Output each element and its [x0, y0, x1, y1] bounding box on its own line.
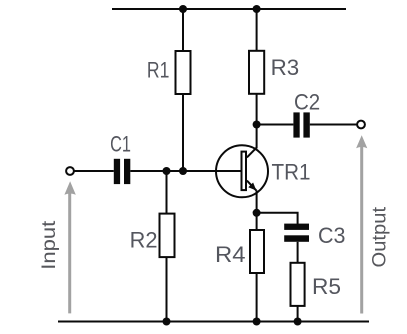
wire C3 to R5 [297, 242, 299, 264]
svg-text:C2: C2 [294, 90, 320, 115]
svg-text:R1: R1 [147, 57, 170, 82]
transistor TR1 body circle [216, 145, 268, 197]
svg-text:TR1: TR1 [272, 159, 311, 184]
resistor R2 [160, 214, 175, 258]
wire R2 top [166, 171, 168, 215]
wire R1 bottom to base node [182, 94, 184, 171]
wire top supply rail [112, 8, 346, 10]
node emitter junction [253, 209, 261, 217]
wire input to C1 [75, 170, 114, 172]
svg-text:C1: C1 [110, 131, 131, 156]
svg-text:R4: R4 [215, 242, 246, 267]
svg-text:R2: R2 [130, 228, 158, 253]
wire R3 bottom to collector [256, 94, 258, 149]
node ground rail R4 junction [253, 318, 261, 326]
node base wire R2 junction [163, 167, 171, 175]
node top rail R3 junction [253, 5, 261, 13]
wire C1 to transistor base [130, 170, 240, 172]
wire emitter node to C3 [257, 213, 298, 224]
wire R3 top to rail [256, 9, 258, 52]
resistor R4 [250, 230, 264, 273]
wire R4 bottom to ground rail [256, 273, 258, 322]
transistor TR1 emitter arrowhead [248, 183, 256, 191]
transistor TR1 base bar [242, 152, 247, 191]
resistor R3 [249, 51, 264, 94]
svg-text:C3: C3 [318, 223, 346, 248]
capacitor C3 [284, 224, 309, 242]
resistor R5 [291, 263, 305, 306]
node base wire R1 junction [179, 167, 187, 175]
node ground rail R2 junction [163, 318, 171, 326]
transistor TR1 emitter stroke [247, 181, 257, 191]
svg-text:Output: Output [369, 206, 391, 267]
node ground rail R5 junction [294, 318, 302, 326]
wire bottom ground rail [58, 321, 369, 323]
svg-text:R5: R5 [312, 274, 341, 299]
svg-text:Input: Input [38, 220, 60, 270]
wire R1 top to rail [182, 9, 184, 52]
wire R2 bottom to ground rail [166, 257, 168, 321]
wire collector node to C2 [257, 124, 294, 126]
terminal input [66, 167, 74, 175]
output direction arrow [356, 135, 367, 313]
wire emitter to node [256, 190, 258, 214]
capacitor C2 [293, 112, 309, 137]
node top rail R1 junction [179, 5, 187, 13]
node collector C2 junction [253, 121, 261, 129]
input direction arrow [64, 181, 75, 313]
wire R5 bottom to ground rail [297, 306, 299, 322]
transistor TR1 collector stroke [247, 148, 257, 158]
terminal output [357, 121, 365, 129]
svg-text:R3: R3 [271, 55, 300, 80]
capacitor C1 [114, 159, 131, 184]
wire emitter node to R4 [256, 213, 258, 231]
resistor R1 [176, 51, 191, 94]
wire C2 to output terminal [310, 124, 357, 126]
